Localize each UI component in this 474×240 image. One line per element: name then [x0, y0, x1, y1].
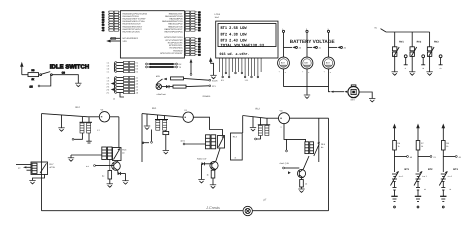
battery BT1 symbol	[391, 171, 405, 196]
terminal (coil RL5a)	[255, 136, 261, 140]
resistor R2	[173, 85, 209, 88]
relay coil RL5	[305, 142, 314, 154]
svg-text:x: x	[308, 71, 309, 74]
relay RL4 box	[113, 148, 128, 161]
battery BT2 symbol	[414, 171, 428, 196]
svg-text:BATTERY VOLTAGE: BATTERY VOLTAGE	[290, 39, 335, 44]
relay coil RL5a	[258, 118, 270, 136]
svg-text:RC4/SDI/SDA: RC4/SDI/SDA	[169, 47, 183, 50]
terminal (block3 cluster)	[286, 139, 288, 152]
big loop wire left vertical	[41, 114, 43, 211]
svg-text:A5: A5	[136, 89, 138, 92]
connector J2 pin	[107, 82, 138, 85]
big loop wire bottom	[42, 210, 243, 212]
svg-text:BT2 4.38 LOW: BT2 4.38 LOW	[221, 32, 248, 37]
node BT1 sense wire	[282, 28, 284, 57]
svg-text:RB0/AN12/INT: RB0/AN12/INT	[169, 12, 183, 15]
svg-text:1 5: 1 5	[107, 80, 110, 83]
svg-text:RB7/ICSPDAT/P1A: RB7/ICSPDAT/P1A	[165, 30, 184, 33]
connector J2 pin	[107, 70, 138, 73]
svg-text:4n: 4n	[122, 152, 124, 155]
connector J2 pin	[107, 85, 138, 88]
ground (RV1)	[392, 72, 398, 75]
connector J2 pin	[107, 64, 138, 67]
relay coil RL4	[102, 147, 112, 160]
svg-text:MCLR/VPP/RE3: MCLR/VPP/RE3	[123, 37, 139, 40]
svg-text:RL1: RL1	[152, 107, 157, 110]
sense branch 2 arrow	[416, 124, 420, 141]
driver block 1: top wire with ramp	[42, 114, 100, 117]
svg-text:BT1: BT1	[405, 168, 410, 171]
battery BT3 symbol	[439, 171, 453, 196]
wire RL5 feed vertical	[318, 118, 320, 162]
svg-text:1H: 1H	[30, 85, 33, 88]
wire bus to motor	[329, 87, 348, 93]
svg-text:x: x	[330, 71, 331, 74]
relay coil RL1	[155, 115, 168, 130]
svg-text:2 4: 2 4	[107, 83, 110, 86]
svg-text:01S ud. a.uthr.: 01S ud. a.uthr.	[220, 52, 250, 57]
relay RL3 contact box	[218, 136, 225, 149]
svg-text:1 4: 1 4	[107, 62, 110, 65]
wire	[52, 75, 78, 83]
node BT3 sense wire	[327, 28, 329, 57]
svg-text:RC0/T1OSO/T1CKI: RC0/T1OSO/T1CKI	[164, 36, 183, 39]
battery gauge BT3	[323, 57, 335, 74]
connector J2 pin	[107, 88, 138, 91]
relay contact RV2	[410, 32, 425, 72]
svg-text:1k: 1k	[207, 174, 209, 177]
big loop wire bottom right part	[253, 210, 329, 212]
ground (R5)	[298, 189, 304, 192]
lamp X1 crystal	[156, 84, 166, 90]
connector J2 rows group 1	[107, 61, 138, 73]
diode D1 arrow	[156, 78, 167, 85]
resistor R8	[28, 69, 39, 81]
zener D4	[202, 162, 212, 179]
svg-text:RC5/SDO: RC5/SDO	[173, 49, 183, 52]
svg-text:RV3: RV3	[434, 41, 439, 44]
svg-text:J.Cnnás: J.Cnnás	[205, 206, 220, 210]
svg-text:1k: 1k	[421, 145, 423, 148]
wire idle switch top	[22, 74, 28, 76]
svg-text:Ann1 Q.W: Ann1 Q.W	[280, 162, 289, 165]
svg-text:RA7/OSC1/CLKIN: RA7/OSC1/CLKIN	[123, 30, 140, 33]
svg-text:RL2: RL2	[256, 108, 261, 111]
svg-text:K1: K1	[136, 62, 138, 65]
ground (R3)	[107, 184, 113, 187]
svg-text:BT3: BT3	[453, 168, 458, 171]
svg-text:A6: A6	[136, 92, 138, 95]
ground (BT2)	[415, 196, 421, 208]
svg-text:A1: A1	[136, 77, 138, 80]
coil RL2 right lead tick	[86, 133, 91, 143]
resistor R6	[393, 141, 401, 173]
svg-text:2 2: 2 2	[107, 89, 110, 92]
IC U1 right pin stubs group A	[184, 11, 201, 32]
panel meter V1	[97, 109, 110, 132]
relay coil RL3	[206, 135, 216, 149]
zener D3	[118, 172, 126, 181]
relay contact RV1	[393, 32, 408, 72]
svg-text:TOTAL VOLTAGE138.33: TOTAL VOLTAGE138.33	[221, 43, 265, 48]
svg-text:1k: 1k	[398, 145, 400, 148]
IC U1 pin name texts	[123, 12, 184, 55]
svg-text:/2004/15: /2004/15	[203, 95, 212, 98]
motor M3 bottom	[243, 206, 252, 215]
driver block 2: left vertical	[141, 114, 143, 162]
driver block 2: top ramp wire	[142, 114, 183, 118]
svg-text:A3: A3	[136, 83, 138, 86]
wire V2 right drop	[193, 117, 222, 135]
LCD module outer box	[216, 21, 278, 58]
svg-text:BT3 2.43 LOW: BT3 2.43 LOW	[221, 38, 248, 43]
connector J2 pin	[107, 79, 138, 82]
resistor R7	[416, 141, 424, 173]
svg-text:a BarTune: a BarTune	[157, 93, 167, 96]
svg-text:A2: A2	[136, 80, 138, 83]
svg-text:x: x	[285, 71, 286, 74]
svg-text:1k: 1k	[305, 183, 307, 186]
driver block 3: left vertical	[242, 116, 244, 134]
sense branch 1 arrow	[393, 124, 397, 141]
ground (D3)	[122, 181, 128, 184]
svg-text:IDLE SWITCH: IDLE SWITCH	[50, 64, 89, 71]
power arrow VCC (idle switch supply)	[20, 62, 23, 75]
svg-text:RA5/AN4/SS/C2OUT: RA5/AN4/SS/C2OUT	[123, 25, 143, 28]
jumper wire J3	[146, 63, 182, 66]
svg-text:4/7/W: 4/7/W	[50, 166, 55, 169]
svg-text:u: u	[281, 126, 282, 129]
svg-text:RB3/AN9/PGM/C12IN: RB3/AN9/PGM/C12IN	[162, 20, 183, 23]
svg-text:1 3: 1 3	[107, 65, 110, 68]
resistor R3	[102, 160, 112, 184]
switch S1 idle	[40, 71, 66, 75]
terminal AD1	[307, 46, 322, 49]
panel meter V3	[279, 110, 290, 129]
svg-text:K4: K4	[136, 71, 138, 74]
ground (block1 mid)	[68, 155, 74, 161]
svg-text:RA0/AN0/ULPWU/C12IN0: RA0/AN0/ULPWU/C12IN0	[123, 12, 148, 15]
terminal (coil RL2 left lead)	[72, 133, 82, 140]
wire block1 mid	[71, 154, 102, 156]
IC U1 left pin stubs group B (MCLR)	[106, 37, 120, 42]
relay coil RL2	[80, 117, 93, 133]
sense branch 3 arrow	[442, 124, 446, 141]
svg-text:VD: VD	[280, 110, 283, 113]
big loop wire right vertical	[328, 118, 330, 211]
ground (RV3)	[426, 72, 432, 75]
ground (D4)	[198, 180, 204, 183]
svg-text:RC1/T1OSI/CCP2: RC1/T1OSI/CCP2	[166, 39, 184, 42]
resistor R5	[300, 178, 307, 189]
ground (R4)	[210, 185, 216, 188]
relay RL5 actuator arrow	[314, 142, 326, 156]
resistor R1	[156, 75, 209, 80]
svg-text:1 2: 1 2	[107, 68, 110, 71]
terminal AD0	[284, 46, 302, 49]
terminal AD2	[329, 46, 347, 49]
svg-text:K2: K2	[136, 65, 138, 68]
LCD module LCD4 label	[215, 13, 221, 19]
svg-text:RA1/AN1/C12IN1: RA1/AN1/C12IN1	[123, 15, 140, 18]
terminal (Q3 base)	[283, 167, 300, 169]
LCD text lines	[220, 26, 265, 57]
IC U1 left pin stubs group A	[102, 11, 120, 32]
resistor under coil RL1	[163, 130, 169, 150]
terminal 1H	[30, 85, 40, 88]
svg-text:RC3/SCK/SCL: RC3/SCK/SCL	[169, 44, 183, 47]
battery gauge BT2	[301, 57, 313, 74]
svg-text:K3: K3	[136, 68, 138, 71]
ground (block3 top)	[250, 116, 256, 130]
svg-text:RB5/AN13/T1G: RB5/AN13/T1G	[168, 25, 183, 28]
svg-text:RC6/TX/CK RC7/RX/DT: RC6/TX/CK RC7/RX/DT	[160, 52, 183, 55]
svg-text:1k: 1k	[446, 145, 448, 148]
svg-text:A4: A4	[136, 86, 138, 89]
ground (block2 top)	[144, 114, 150, 129]
svg-text:LCD4: LCD4	[215, 13, 221, 16]
ground (BT1)	[391, 196, 397, 208]
terminal RT1	[209, 85, 217, 88]
connector J2 pin	[107, 67, 138, 70]
relay RL7 with contacts	[16, 162, 55, 175]
wire branch to terminal 1H	[40, 75, 51, 86]
diode D2	[166, 85, 173, 88]
svg-text:BT2: BT2	[428, 168, 433, 171]
jumper wire J4	[146, 66, 182, 69]
wire Vss from IC bottom	[190, 59, 193, 76]
panel meter V2	[183, 109, 193, 122]
connector J2 pin	[107, 91, 138, 94]
svg-text:RuN1 0.W: RuN1 0.W	[197, 158, 206, 161]
relay contact bus 5V	[375, 27, 430, 33]
ground (gauge bus)	[304, 87, 310, 99]
gauge common bus	[284, 69, 329, 87]
power arrow near IC bottom right	[209, 57, 214, 75]
ground (RV2)	[409, 72, 415, 75]
svg-text:1 6: 1 6	[107, 77, 110, 80]
ground (RL7)	[29, 175, 44, 184]
wire V1 right drop	[110, 116, 119, 118]
connector J2 pin	[107, 76, 138, 79]
wire V3 bottom drop	[284, 123, 306, 141]
relay RL3 tall box	[231, 133, 243, 160]
zener D5 tick	[288, 171, 291, 174]
wire block2 coil left lead to terminal	[142, 130, 152, 144]
transistor Q1	[112, 161, 121, 174]
svg-text:RL2: RL2	[76, 106, 81, 109]
connector J2 rows group 2	[107, 76, 138, 100]
transistor Q2	[210, 149, 220, 171]
resistor R4	[207, 170, 215, 185]
svg-text:RC2/P1A/CCP1: RC2/P1A/CCP1	[168, 41, 184, 44]
motor M1	[348, 85, 359, 102]
svg-text:4n: 4n	[321, 146, 323, 149]
svg-text:RA4/T0CKI/C1OUT: RA4/T0CKI/C1OUT	[123, 23, 142, 26]
svg-text:RA3/AN3/VREF+/C1IN+: RA3/AN3/VREF+/C1IN+	[123, 20, 146, 23]
terminal (Q1 base)	[86, 165, 114, 168]
LCD pin stubs	[220, 58, 262, 82]
ground (block1 top)	[58, 115, 64, 131]
svg-text:VSS: VSS	[123, 40, 128, 43]
svg-text:RB1/AN10/C12IN3: RB1/AN10/C12IN3	[165, 15, 183, 18]
svg-text:K1OR: K1OR	[212, 79, 218, 82]
terminal A0 branch	[395, 156, 413, 159]
relay contact RV3	[427, 32, 442, 72]
svg-text:RV1: RV1	[399, 41, 404, 44]
terminal A2 branch	[443, 156, 462, 159]
driver block 3: top ramp wire	[243, 116, 279, 119]
resistor R8	[442, 141, 450, 173]
terminal A1 branch	[418, 156, 437, 159]
ground (LCD left)	[210, 75, 216, 78]
terminal (block2 cluster)	[181, 139, 206, 145]
svg-text:RB4/AN11/P1D: RB4/AN11/P1D	[168, 23, 183, 26]
ground (motor)	[369, 99, 375, 102]
ground (idle switch)	[75, 83, 81, 86]
terminal K1OR	[209, 79, 218, 82]
svg-text:RV2: RV2	[417, 41, 422, 44]
svg-text:BT1 2.58 LOW: BT1 2.58 LOW	[221, 26, 248, 31]
LCD screen inner box	[218, 24, 276, 47]
transistor Q3	[297, 156, 309, 178]
node BT2 sense wire	[306, 28, 308, 57]
svg-text:1 1: 1 1	[107, 71, 110, 74]
svg-text:2 1: 2 1	[107, 92, 110, 95]
ground (BT3)	[440, 196, 446, 208]
wire V3 continues to loop right	[290, 117, 329, 119]
battery gauge BT1	[278, 57, 290, 74]
wire motor to ground	[359, 92, 372, 98]
svg-text:2 3: 2 3	[107, 86, 110, 89]
IC U1 right pin stubs group B	[184, 38, 201, 57]
ground (block2 coil)	[163, 151, 169, 154]
connector J2 pin	[107, 61, 138, 64]
svg-text:4u: 4u	[102, 175, 104, 178]
op IC U1 microcontroller body	[120, 11, 184, 58]
